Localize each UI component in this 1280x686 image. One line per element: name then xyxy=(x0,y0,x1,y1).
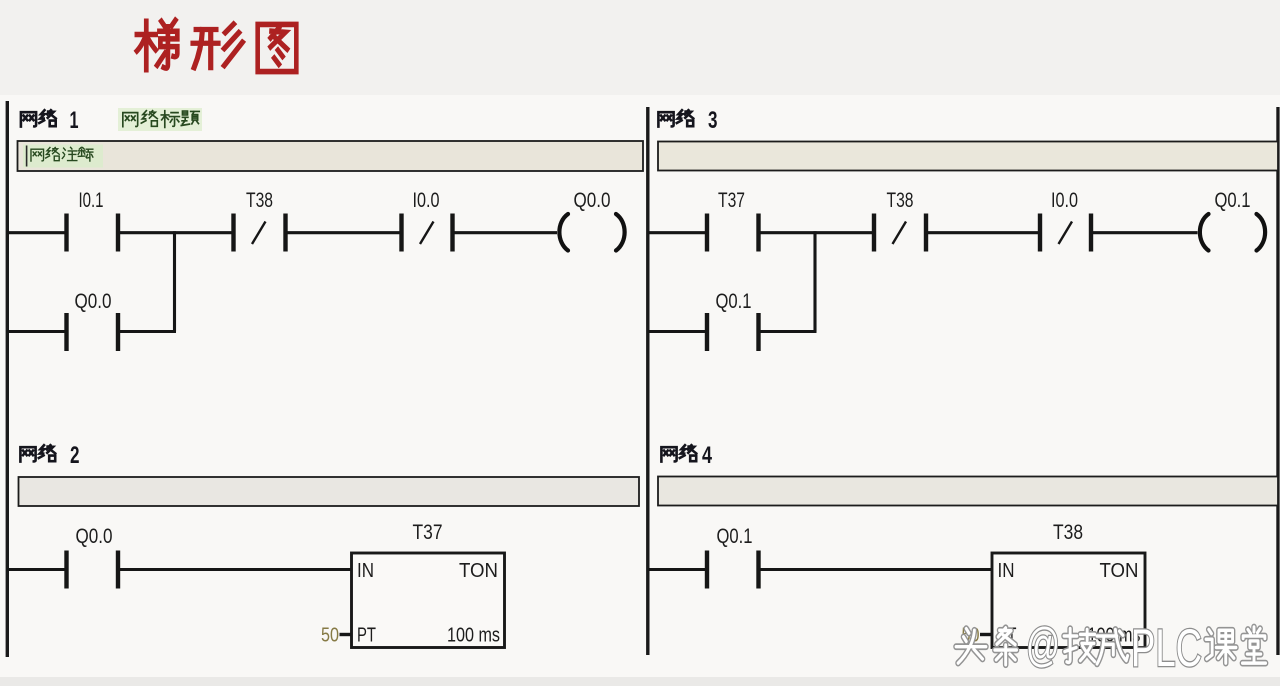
coil Q0.1 xyxy=(1200,214,1265,251)
wire I0.0 to coil Q0.0 xyxy=(453,231,558,234)
branch wire rail to Q0.0 contact xyxy=(7,330,65,333)
PT stub wire xyxy=(980,633,992,636)
contact T38 (NC) xyxy=(872,214,928,252)
svg-text:1: 1 xyxy=(70,107,79,134)
timer T38 box xyxy=(992,553,1145,648)
contact Q0.0 xyxy=(64,551,120,589)
text cursor xyxy=(26,146,28,167)
svg-text:T37: T37 xyxy=(413,521,443,544)
svg-text:Q0.1: Q0.1 xyxy=(1215,189,1251,212)
branch vertical connector xyxy=(173,231,176,331)
wire rail to T37 xyxy=(648,231,705,234)
wire rail to Q0.0 xyxy=(7,568,65,571)
network 3 comment box xyxy=(658,142,1278,171)
title char 图 xyxy=(258,24,297,71)
watermark white pass xyxy=(956,627,1266,665)
branch contact Q0.0 xyxy=(64,313,120,351)
network 3 header 络 xyxy=(677,110,693,126)
svg-text:TON: TON xyxy=(1100,560,1139,582)
svg-text:IN: IN xyxy=(357,560,374,582)
timer T37 box xyxy=(352,553,505,648)
branch wire rail to Q0.1 contact xyxy=(648,330,705,333)
branch wire Q0.1 contact to connector xyxy=(759,330,817,333)
svg-text:@: @ xyxy=(1026,618,1060,671)
svg-text:3: 3 xyxy=(708,107,718,134)
svg-text:T37: T37 xyxy=(718,189,745,212)
contact I0.0 (NC) xyxy=(399,214,454,252)
network 3 header 网 xyxy=(658,112,673,126)
network 1 comment box xyxy=(18,141,644,171)
svg-text:T38: T38 xyxy=(887,189,914,212)
comment text 网络注释 xyxy=(31,147,93,161)
contact Q0.1 xyxy=(705,551,761,589)
svg-text:I0.0: I0.0 xyxy=(1051,189,1078,212)
wire I0.0 to coil Q0.1 xyxy=(1091,231,1198,234)
wire rail to I0.1 xyxy=(7,231,65,234)
svg-text:100 ms: 100 ms xyxy=(447,625,500,647)
svg-text:I0.0: I0.0 xyxy=(413,189,440,212)
wire I0.1 to T38 xyxy=(118,231,234,234)
title char 形 xyxy=(193,24,242,67)
wire Q0.0 to timer T37 xyxy=(118,568,352,571)
wire T37 to T38 xyxy=(759,231,875,234)
wire Q0.1 to timer T38 xyxy=(759,568,993,571)
network 4 comment box xyxy=(658,477,1278,506)
wire rail to Q0.1 xyxy=(648,568,705,571)
network 4 header 络 xyxy=(680,445,696,461)
comment highlight xyxy=(23,145,103,168)
svg-text:Q0.0: Q0.0 xyxy=(75,290,112,313)
network title text 网络标题 xyxy=(123,111,199,128)
svg-text:Q0.0: Q0.0 xyxy=(574,189,611,212)
left power rail xyxy=(6,101,9,657)
wire T38 to I0.0 xyxy=(286,231,402,234)
svg-text:I0.1: I0.1 xyxy=(79,189,104,212)
svg-text:T38: T38 xyxy=(1053,521,1083,544)
svg-text:50: 50 xyxy=(321,625,339,647)
bottom gray strip xyxy=(0,677,1280,686)
branch contact Q0.1 xyxy=(705,313,761,351)
svg-text:T38: T38 xyxy=(246,189,273,212)
network 2 header 络 xyxy=(39,445,55,461)
far right edge rail xyxy=(1276,107,1279,655)
branch wire Q0.0 contact to connector xyxy=(118,330,176,333)
coil Q0.0 xyxy=(559,214,624,251)
I0.0 NC slash xyxy=(1059,222,1073,245)
contact I0.1 xyxy=(64,214,120,252)
svg-text:PT: PT xyxy=(357,625,376,647)
right column power rail / divider xyxy=(646,107,649,655)
wire T38 to I0.0 xyxy=(926,231,1040,234)
svg-text:IN: IN xyxy=(998,560,1015,582)
network 2 header 网 xyxy=(20,447,35,461)
I0.0 NC slash xyxy=(420,222,434,245)
svg-text:Q0.1: Q0.1 xyxy=(716,290,752,313)
svg-text:Q0.0: Q0.0 xyxy=(76,525,113,548)
watermark outline pass xyxy=(956,627,1266,665)
network 4 header 网 xyxy=(661,447,676,461)
svg-text:TON: TON xyxy=(459,560,498,582)
contact T37 xyxy=(705,214,761,252)
contact I0.0 (NC) xyxy=(1038,214,1093,252)
svg-text:4: 4 xyxy=(702,442,712,469)
svg-text:PLC: PLC xyxy=(1131,619,1202,678)
PT stub wire xyxy=(340,633,352,636)
contact T38 (NC) xyxy=(231,214,287,252)
branch vertical connector xyxy=(813,231,816,331)
svg-text:Q0.1: Q0.1 xyxy=(717,525,753,548)
network 1 title highlight xyxy=(118,108,202,131)
network 1 header 络 xyxy=(39,110,55,126)
network 1 header 网 xyxy=(21,112,36,126)
T38 NC slash xyxy=(893,222,907,245)
svg-text:2: 2 xyxy=(70,442,80,469)
network 2 comment box xyxy=(19,477,640,506)
title 梯形图 char 梯 xyxy=(137,20,177,70)
T38 NC slash xyxy=(252,222,266,245)
